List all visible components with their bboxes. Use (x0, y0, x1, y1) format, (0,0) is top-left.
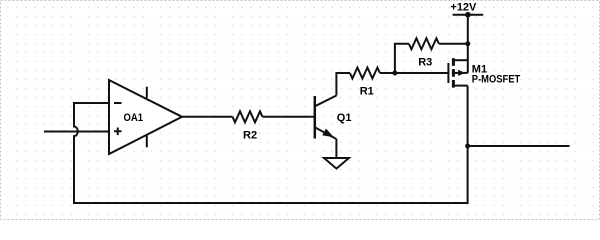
resistor R2 (233, 111, 263, 141)
node: output junction (465, 144, 470, 149)
svg-text:R1: R1 (360, 86, 374, 98)
resistor R3 (409, 38, 439, 68)
transistor Q1 (315, 96, 352, 140)
ground (324, 158, 349, 169)
wire: Q1 collector up to R1 (336, 73, 350, 96)
transistor M1 P-MOSFET (448, 58, 520, 87)
wire: Q1 emitter to ground (335, 139, 337, 158)
wire: op-amp inverting input to feedback left vertical (hops over + input wire) (74, 103, 109, 204)
svg-text:OA1: OA1 (124, 112, 144, 124)
wire: feedback bottom run (73, 202, 469, 204)
svg-text:+12V: +12V (450, 1, 477, 13)
wire: op-amp output to R2 (182, 116, 233, 118)
wire: node up to R3 left (395, 44, 409, 73)
wire: output to right (468, 145, 570, 147)
power +12V terminal (450, 1, 483, 17)
op-amp OA1 (109, 80, 182, 154)
wire: +12V down to MOSFET source/body (467, 15, 469, 73)
svg-text:P-MOSFET: P-MOSFET (472, 73, 521, 85)
node: R1/R3/gate junction (392, 71, 397, 76)
svg-text:R3: R3 (418, 57, 432, 69)
svg-text:Q1: Q1 (337, 112, 352, 124)
wire: R1 to node and MOSFET gate (380, 72, 449, 74)
wire: R2 to Q1 base (263, 116, 315, 118)
resistor R1 (350, 68, 380, 98)
svg-text:R2: R2 (243, 129, 257, 141)
wire: MOSFET drain down through output node to bottom run (467, 86, 469, 204)
wire: R3 right to +12V rail (439, 43, 468, 45)
node: R3/+12V junction (465, 41, 470, 46)
wire: non-inverting input from left edge (44, 131, 109, 133)
